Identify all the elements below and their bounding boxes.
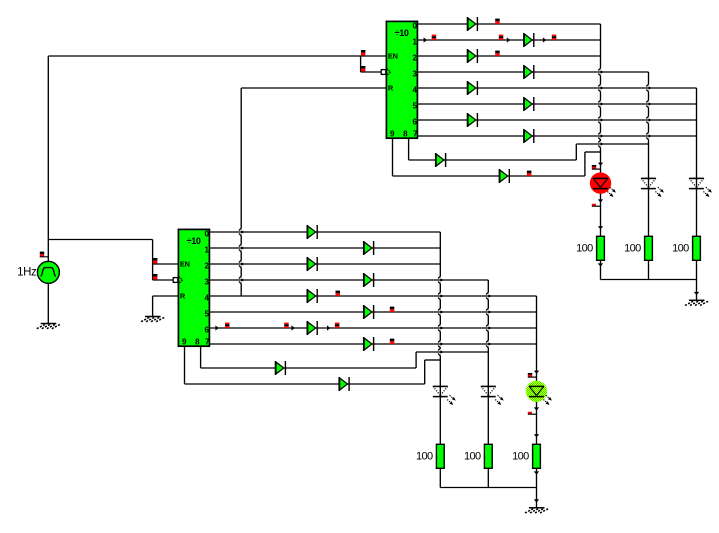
svg-text:100: 100 bbox=[512, 450, 529, 462]
svg-text:7: 7 bbox=[205, 338, 210, 347]
svg-text:3: 3 bbox=[412, 70, 417, 79]
svg-text:÷10: ÷10 bbox=[395, 28, 409, 38]
svg-text:÷10: ÷10 bbox=[187, 236, 201, 246]
svg-text:5: 5 bbox=[412, 102, 417, 111]
svg-text:1Hz: 1Hz bbox=[17, 267, 37, 279]
svg-text:8: 8 bbox=[403, 130, 408, 139]
svg-text:EN: EN bbox=[388, 52, 398, 61]
svg-text:100: 100 bbox=[672, 242, 689, 254]
svg-text:2: 2 bbox=[412, 54, 417, 63]
svg-text:9: 9 bbox=[390, 130, 395, 139]
svg-text:2: 2 bbox=[204, 262, 209, 271]
svg-text:R: R bbox=[388, 83, 394, 92]
svg-text:100: 100 bbox=[624, 242, 641, 254]
svg-text:3: 3 bbox=[204, 278, 209, 287]
svg-text:1: 1 bbox=[412, 38, 417, 47]
svg-text:0: 0 bbox=[412, 22, 417, 31]
svg-text:4: 4 bbox=[412, 86, 417, 95]
svg-text:5: 5 bbox=[204, 310, 209, 319]
svg-text:6: 6 bbox=[204, 326, 209, 335]
svg-text:7: 7 bbox=[413, 130, 418, 139]
svg-text:4: 4 bbox=[204, 294, 209, 303]
svg-text:R: R bbox=[180, 291, 186, 300]
svg-text:9: 9 bbox=[182, 338, 187, 347]
svg-text:6: 6 bbox=[412, 118, 417, 127]
svg-text:EN: EN bbox=[180, 260, 190, 269]
svg-text:100: 100 bbox=[416, 450, 433, 462]
svg-text:1: 1 bbox=[204, 246, 209, 255]
svg-text:100: 100 bbox=[464, 450, 481, 462]
svg-text:8: 8 bbox=[195, 338, 200, 347]
svg-text:0: 0 bbox=[204, 230, 209, 239]
svg-text:100: 100 bbox=[576, 242, 593, 254]
